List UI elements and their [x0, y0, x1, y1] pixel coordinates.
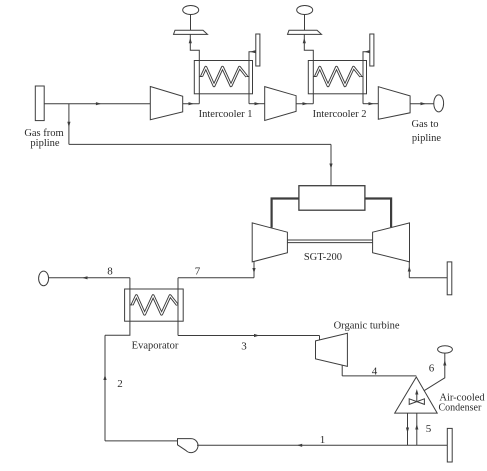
- arrow down fuel takeoff: [67, 122, 70, 128]
- arrow condensate down: [406, 428, 409, 434]
- wire intercooler 1 to compressor 2: [249, 103, 265, 105]
- intercooler 2 left riser: [304, 35, 313, 104]
- svg-text:Organic turbine: Organic turbine: [334, 321, 400, 332]
- evaporator coil: [132, 296, 177, 314]
- wire fuel gas line vertical: [330, 144, 332, 185]
- wire intercooler 2 to compressor 3: [363, 103, 378, 105]
- wire stream 3: [178, 335, 320, 337]
- svg-text:1: 1: [320, 434, 326, 446]
- arrow into intercooler 2: [303, 102, 309, 105]
- intercooler 1 left riser: [190, 35, 199, 104]
- wire air inlet horizontal: [409, 277, 447, 279]
- arrow to gas outlet: [421, 102, 427, 105]
- svg-text:Evaporator: Evaporator: [132, 341, 179, 352]
- wire turbine outlet down: [341, 365, 343, 376]
- intercooler 1 coil: [202, 67, 247, 85]
- arrow air into intercooler 2: [364, 50, 370, 53]
- arrow exhaust down: [252, 268, 255, 274]
- arrow stream 1 left: [297, 444, 303, 447]
- arrow air into intercooler 1: [250, 50, 256, 53]
- node fuel takeoff: [68, 104, 70, 145]
- wire exhaust line 7: [178, 277, 254, 279]
- wire inlet to compressor 1: [44, 103, 150, 105]
- svg-text:SGT-200: SGT-200: [304, 252, 342, 263]
- intercooler 2 shell: [308, 61, 366, 94]
- intercooler 1 air inlet bar: [256, 34, 260, 66]
- svg-text:5: 5: [426, 423, 432, 435]
- evaporator left riser: [105, 278, 130, 336]
- svg-text:8: 8: [107, 266, 113, 278]
- organic turbine body: [316, 333, 348, 366]
- wire exhaust down from left body: [253, 261, 255, 277]
- arrow up to fan 1: [189, 38, 192, 44]
- intercooler 2 air inlet bar: [370, 34, 374, 66]
- intercooler 1 shell: [194, 61, 252, 94]
- arrow into compressor 2: [255, 102, 261, 105]
- fan 2 blade bar: [288, 30, 322, 34]
- fan 1 blade bar: [174, 30, 208, 34]
- arrow down fuel to combustor: [329, 164, 332, 170]
- wire stream 4: [342, 375, 416, 377]
- condenser triangle: [395, 377, 438, 413]
- svg-text:4: 4: [372, 366, 378, 378]
- svg-text:Condenser: Condenser: [439, 403, 482, 414]
- gas inlet bar: [35, 86, 44, 121]
- fan 1 motor ellipse: [183, 6, 199, 15]
- svg-text:3: 3: [241, 341, 247, 353]
- wire compressor 2 to intercooler 2: [296, 103, 313, 105]
- arrow on inlet wire: [96, 102, 102, 105]
- condenser fan bowtie: [409, 399, 417, 405]
- arrow into intercooler 1: [189, 102, 195, 105]
- wire stream 2 vertical: [104, 335, 106, 441]
- compressor 3: [378, 87, 410, 120]
- intercooler 2 right riser: [363, 52, 370, 104]
- svg-text:pipline: pipline: [30, 138, 60, 149]
- combustor: [299, 186, 365, 211]
- wire combustor to compressor section (thick): [272, 199, 299, 228]
- svg-text:Gas to: Gas to: [411, 119, 438, 130]
- compressor 1: [150, 87, 182, 120]
- wire stream 5 up: [416, 413, 418, 445]
- arrow stream 2 up: [103, 375, 106, 381]
- wire pump suction: [105, 440, 178, 442]
- wire condensate bottom line: [197, 444, 447, 446]
- compressor 2: [265, 87, 296, 121]
- arrow into compressor 3: [369, 102, 375, 105]
- intercooler 2 coil: [316, 67, 361, 85]
- svg-text:6: 6: [429, 363, 435, 375]
- arrow stream 5 up: [415, 424, 418, 430]
- air inlet bar: [447, 262, 452, 295]
- svg-text:pipline: pipline: [412, 133, 442, 144]
- wire air inlet up to right body: [408, 262, 410, 278]
- svg-text:Intercooler 2: Intercooler 2: [313, 109, 367, 120]
- svg-text:2: 2: [117, 378, 123, 390]
- wire combustor to turbine section (thick): [365, 199, 391, 228]
- bottom right bar: [447, 428, 452, 462]
- organic turbine inlet notch: [319, 336, 321, 341]
- fan 2 stem: [304, 14, 306, 30]
- shaft: [287, 239, 372, 241]
- wire condensate down left: [407, 413, 409, 445]
- turbine left body SGT-200: [252, 223, 287, 262]
- svg-text:Intercooler 1: Intercooler 1: [199, 109, 253, 120]
- arrow up to fan 2: [303, 38, 306, 44]
- wire fuel gas line horizontal: [69, 143, 331, 145]
- turbine right body SGT-200: [373, 223, 410, 262]
- fan 2 motor ellipse: [297, 6, 313, 15]
- wire compressor 3 to outlet: [410, 103, 434, 105]
- svg-text:7: 7: [195, 266, 201, 278]
- evaporator shell: [125, 289, 184, 321]
- fan 1 stem: [190, 14, 192, 30]
- gas outlet ellipse: [434, 95, 444, 112]
- pump: [178, 439, 198, 453]
- arrow air up into turbine: [408, 266, 411, 272]
- intercooler 1 right riser: [249, 52, 256, 104]
- arrow exhaust left: [82, 276, 88, 279]
- exhaust outlet ellipse node 8: [39, 271, 49, 286]
- arrow up vent: [443, 360, 446, 366]
- wire compressor 1 to intercooler 1: [183, 103, 200, 105]
- evaporator right riser: [177, 278, 179, 336]
- wire exhaust line 8: [49, 277, 130, 279]
- wire vapor vent diagonal node 6: [424, 353, 445, 391]
- condenser fan arrow: [416, 392, 418, 402]
- arrow stream 3 right: [254, 334, 260, 337]
- vent outlet ellipse: [438, 346, 453, 353]
